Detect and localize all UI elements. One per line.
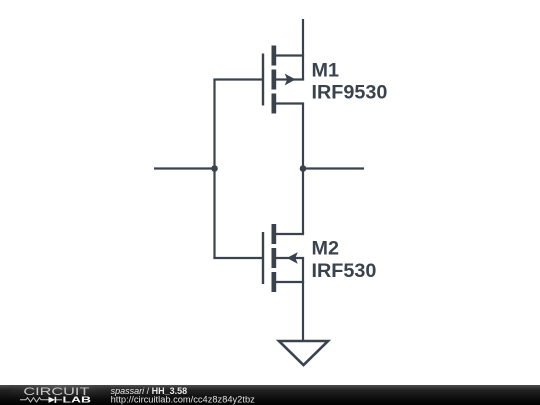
wire: gate lead of M1 (213, 78, 263, 80)
transistor M2 (N-channel MOSFET) (263, 224, 304, 292)
svg-text:http://circuitlab.com/cc4z8z84: http://circuitlab.com/cc4z8z84y2tbz (111, 395, 256, 405)
svg-text:LAB: LAB (63, 395, 92, 404)
wire: output node down to M2 drain (302, 169, 304, 235)
wire: M2 source body tie vertical (302, 258, 304, 282)
wire: input lead (left) (154, 167, 215, 169)
wire: M2 source down to ground (302, 282, 304, 341)
node: input junction (211, 165, 218, 172)
svg-text:M1: M1 (312, 59, 339, 81)
wire: M1 drain down to output node (302, 104, 304, 169)
footer bar background (0, 385, 540, 405)
wire: top supply lead into M1 source (302, 19, 304, 81)
wire: gate lead of M2 (213, 257, 263, 259)
ground (279, 341, 328, 365)
svg-text:IRF530: IRF530 (312, 260, 377, 282)
CircuitLab logo resistor-diode glyph (20, 397, 62, 403)
svg-text:IRF9530: IRF9530 (312, 82, 388, 104)
node: output junction (300, 165, 307, 172)
transistor M1 (P-channel MOSFET) (263, 46, 304, 114)
wire: gate bus vertical (213, 80, 215, 259)
svg-text:M2: M2 (312, 237, 339, 259)
wire: output lead (right) (303, 167, 364, 169)
